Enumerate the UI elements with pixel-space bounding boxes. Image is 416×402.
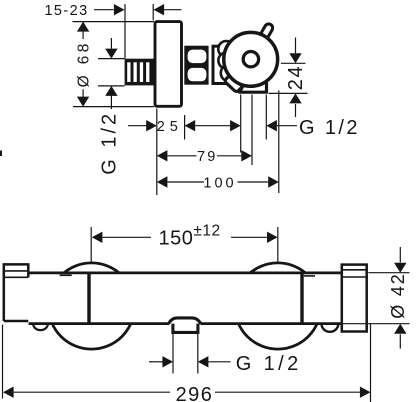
- svg-text:Ø 68: Ø 68: [75, 40, 92, 87]
- extension lines row: [157, 91, 279, 196]
- lower-left grip nub: [224, 74, 243, 93]
- joint line right valve: [300, 273, 303, 324]
- svg-text:79: 79: [197, 149, 218, 165]
- svg-text:G 1/2: G 1/2: [299, 117, 360, 139]
- left cap: [4, 264, 29, 321]
- svg-text:100: 100: [203, 175, 236, 191]
- top grip tab: [260, 23, 274, 40]
- dimension Ø42: [388, 247, 408, 349]
- right cap: [342, 265, 367, 332]
- wall line: [73, 21, 155, 23]
- valve plate: [213, 46, 250, 83]
- left edge text fragment: [0, 151, 2, 157]
- left step line: [60, 274, 72, 276]
- svg-text:G 1/2: G 1/2: [99, 111, 121, 175]
- handle scallop lower: [221, 65, 238, 82]
- dimension 296: [3, 384, 371, 402]
- right union knob: [235, 263, 321, 349]
- svg-text:150±12: 150±12: [159, 222, 221, 249]
- outlet spigot side view: [240, 83, 267, 93]
- dimension 25 and outlet G1/2: [128, 117, 360, 139]
- dimension G1/2 pipe thread: [99, 38, 121, 175]
- handle scallop upper: [218, 41, 234, 57]
- pipe extension lines: [98, 59, 125, 86]
- mixer bar body: [29, 272, 345, 325]
- svg-text:296: 296: [176, 384, 214, 402]
- left union nut bump: [33, 324, 48, 330]
- handle scallop middle: [218, 52, 234, 68]
- svg-text:G 1/2: G 1/2: [236, 353, 302, 375]
- handle hub circle: [243, 52, 258, 67]
- dimension 100: [157, 175, 279, 191]
- joint line left valve: [87, 273, 90, 324]
- dimension 79: [157, 149, 252, 165]
- dimension 24: [269, 38, 308, 118]
- left union knob: [48, 263, 134, 349]
- right step line: [304, 275, 315, 277]
- dimension 15-23: [44, 3, 181, 59]
- right union nut bump: [322, 324, 339, 332]
- hex nut: [184, 46, 208, 85]
- svg-text:24: 24: [285, 65, 307, 90]
- escutcheon body: [155, 22, 182, 107]
- svg-text:15-23: 15-23: [44, 3, 88, 19]
- handle outer circle: [224, 32, 278, 86]
- extension lines bottom drawing: [3, 227, 410, 402]
- dimension G1/2 bottom: [149, 353, 302, 375]
- dimension Ø68: [75, 22, 92, 107]
- outlet spigot front view: [169, 318, 201, 333]
- svg-text:25: 25: [157, 119, 183, 135]
- dimension 150±12: [92, 222, 278, 249]
- svg-text:Ø 42: Ø 42: [388, 272, 408, 318]
- body bottom extension line: [73, 106, 154, 108]
- threaded pipe G1/2: [125, 59, 155, 86]
